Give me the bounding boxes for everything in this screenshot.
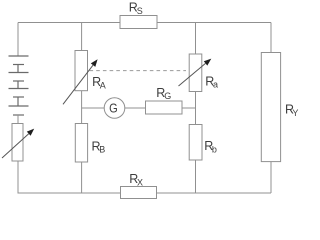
dashed coupling line between RA and Ra xyxy=(90,70,187,72)
wire left lower (rheostat to bottom bus) xyxy=(17,161,19,193)
label RX xyxy=(129,172,143,187)
label RS xyxy=(129,1,143,17)
rheostat (variable resistor, left branch) xyxy=(2,124,34,162)
wire right branch upper xyxy=(270,23,272,53)
variable resistor Ra xyxy=(179,54,212,92)
galvanometer G xyxy=(104,98,125,119)
resistor RS xyxy=(120,16,157,29)
wire left upper (top bus to battery) xyxy=(17,23,19,57)
resistor RY xyxy=(261,53,280,162)
svg-text:S: S xyxy=(137,6,143,16)
svg-text:X: X xyxy=(137,177,143,187)
svg-text:b: b xyxy=(212,145,217,155)
resistor RX xyxy=(121,187,157,199)
variable resistor RA xyxy=(63,51,98,105)
label Ra xyxy=(205,75,218,90)
svg-text:Y: Y xyxy=(292,108,298,118)
wire RG to right-middle branch xyxy=(182,107,196,109)
svg-text:A: A xyxy=(100,80,106,90)
label RA xyxy=(92,75,106,90)
wire right-middle branch Rb to bottom bus xyxy=(195,160,197,193)
label Rb xyxy=(204,139,217,154)
battery (4 cells) xyxy=(9,56,29,115)
wire battery to rheostat xyxy=(17,115,19,124)
svg-text:G: G xyxy=(109,100,118,115)
label RB xyxy=(92,139,106,154)
svg-text:a: a xyxy=(213,80,218,90)
wire middle branch RB to bottom bus xyxy=(81,162,83,193)
wire middle branch upper xyxy=(81,23,83,51)
wire top bus xyxy=(18,22,271,24)
wire galvanometer to RG xyxy=(125,107,146,109)
wire right-middle branch upper xyxy=(195,23,197,55)
svg-text:B: B xyxy=(99,145,105,155)
resistor RB xyxy=(75,124,87,163)
resistor RG xyxy=(146,101,183,114)
label RG xyxy=(156,86,171,101)
wire bottom bus xyxy=(18,192,272,194)
label RY xyxy=(285,102,298,117)
svg-text:G: G xyxy=(164,91,171,101)
wire middle branch RA to RB xyxy=(81,91,83,124)
wire right-middle branch Ra to Rb xyxy=(195,92,197,125)
wire galvanometer left xyxy=(82,107,105,109)
wire right branch lower xyxy=(270,162,272,193)
resistor Rb xyxy=(189,125,202,161)
